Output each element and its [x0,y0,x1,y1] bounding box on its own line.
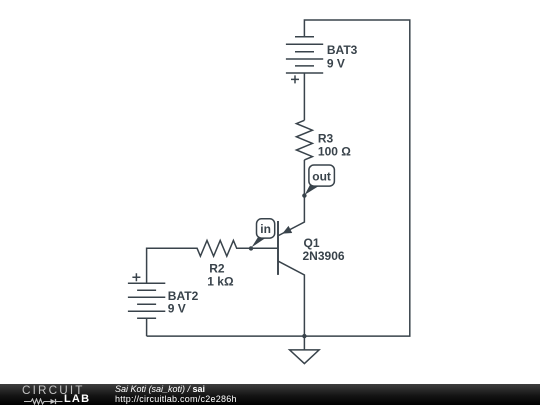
svg-text:9 V: 9 V [168,301,186,315]
svg-text:Q1: Q1 [304,236,320,250]
svg-text:1 kΩ: 1 kΩ [207,274,234,288]
svg-text:2N3906: 2N3906 [303,249,345,263]
svg-text:out: out [312,170,331,184]
svg-text:100 Ω: 100 Ω [318,145,351,159]
svg-text:BAT3: BAT3 [327,43,358,57]
svg-text:R3: R3 [318,132,334,146]
svg-text:in: in [260,222,271,236]
svg-text:9 V: 9 V [327,57,345,71]
